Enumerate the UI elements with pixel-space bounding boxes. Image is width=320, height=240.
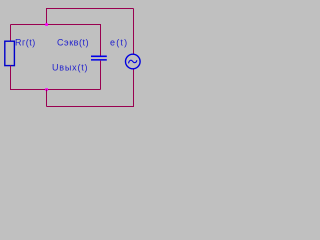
wire: left branch lower segment from resistor to bottom rail <box>10 66 12 91</box>
svg-text:Uвых(t): Uвых(t) <box>52 63 88 73</box>
wire: second top rail between resistor and capacitor branches <box>11 24 101 26</box>
wire: bottom rail to right branch <box>47 106 134 108</box>
wire: source branch vertical connector top <box>46 8 48 25</box>
capacitor C top plate <box>91 56 107 58</box>
svg-text:Сэкв(t): Сэкв(t) <box>57 38 89 48</box>
node junction dot at bottom rail <box>45 88 48 91</box>
wire: middle bottom rail (node 2) <box>11 89 101 91</box>
wire: left branch upper segment to resistor <box>10 25 12 42</box>
svg-text:e(t): e(t) <box>110 38 128 48</box>
svg-text:Rг(t): Rг(t) <box>15 38 36 48</box>
wire: right branch upper segment from top rail to source <box>133 9 135 55</box>
capacitor C bottom plate <box>91 59 107 61</box>
wire: capacitor branch upper segment <box>100 24 102 56</box>
wire: top rail (node 1 top) from source branch to right branch <box>47 8 134 10</box>
node junction dot at top rail <box>45 23 48 26</box>
resistor Rg <box>5 41 15 65</box>
wire: source branch vertical connector bottom <box>46 90 48 107</box>
source e(t) circle (AC source U1) <box>126 54 141 69</box>
wire: capacitor branch lower segment <box>100 61 102 90</box>
source sine symbol inside circle <box>129 60 137 63</box>
wire: right branch lower segment from source to bottom rail <box>133 69 135 107</box>
